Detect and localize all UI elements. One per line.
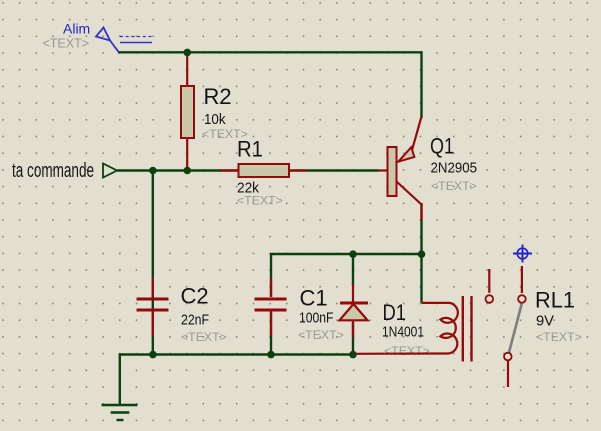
svg-text:1N4001: 1N4001	[382, 324, 424, 341]
relay RL1 common pin with origin marker	[513, 245, 532, 303]
svg-text:<TEXT>: <TEXT>	[431, 179, 477, 193]
wire: collector branch vertical	[420, 204, 422, 303]
terminal: ta commande input	[12, 160, 117, 182]
capacitor C2	[137, 278, 227, 344]
resistor R2	[181, 52, 248, 170]
diode D1 (1N4001)	[340, 284, 430, 358]
svg-text:ta commande: ta commande	[12, 160, 94, 182]
svg-text:C1: C1	[300, 286, 328, 311]
relay RL1 coil	[353, 303, 458, 354]
wire: bottom ground rail	[120, 355, 353, 405]
svg-text:<TEXT>: <TEXT>	[298, 328, 344, 342]
svg-text:22nF: 22nF	[181, 312, 209, 329]
wire: C2 branch vertical	[152, 171, 154, 355]
svg-text:RL1: RL1	[535, 288, 575, 313]
relay RL1 core bars	[463, 296, 472, 362]
wire: D1 branch vertical	[352, 254, 354, 355]
svg-text:C2: C2	[181, 284, 209, 309]
node: junction main wire / R2	[184, 167, 192, 175]
wire: C1 lower vertical	[270, 311, 272, 355]
capacitor C1	[255, 278, 344, 342]
svg-text:R2: R2	[204, 84, 232, 109]
relay RL1 labels	[535, 288, 582, 345]
node: junction bottom rail / C2	[149, 351, 157, 359]
node: junction main wire / C2	[149, 167, 157, 175]
node: junction D1 top	[349, 250, 357, 258]
node: junction bottom rail / C1	[267, 351, 275, 359]
svg-text:<TEXT>: <TEXT>	[384, 344, 430, 358]
svg-text:2N2905: 2N2905	[431, 160, 478, 177]
wire: main horizontal net (ta commande to Q1 base)	[117, 169, 379, 171]
relay RL1 contact NO pin	[486, 269, 494, 303]
ground	[102, 405, 138, 420]
svg-text:<TEXT>: <TEXT>	[43, 37, 90, 51]
node: junction Alim rail / R2	[184, 49, 192, 57]
wire: horizontal net C1 / D1 / collector	[271, 254, 422, 297]
svg-text:100nF: 100nF	[299, 310, 334, 327]
node: junction collector / C1-D1 net	[418, 250, 426, 258]
relay RL1 switch arm	[504, 304, 522, 388]
svg-text:<TEXT>: <TEXT>	[536, 330, 582, 344]
svg-text:9V: 9V	[536, 313, 554, 330]
resistor R1	[220, 137, 306, 208]
node: junction bottom rail / D1	[349, 351, 357, 359]
svg-text:D1: D1	[383, 300, 407, 325]
svg-text:<TEXT>: <TEXT>	[181, 330, 227, 344]
wire: top supply rail from Alim terminal to emitter branch	[118, 52, 422, 118]
svg-text:Alim: Alim	[63, 21, 90, 37]
terminal: Alim power input	[43, 21, 155, 52]
svg-text:Q1: Q1	[430, 134, 454, 159]
svg-text:<TEXT>: <TEXT>	[237, 194, 283, 208]
svg-text:10k: 10k	[204, 111, 226, 128]
svg-text:R1: R1	[237, 137, 263, 162]
transistor Q1 (PNP 2N2905)	[379, 117, 477, 221]
